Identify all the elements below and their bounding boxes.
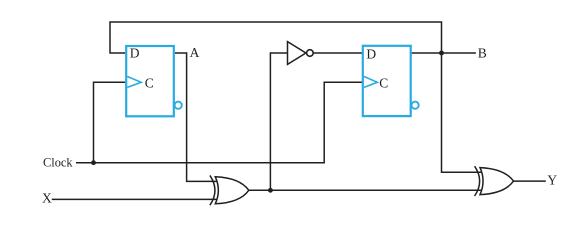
junction on Clock line bbox=[91, 160, 96, 165]
XOR gate 1 body bbox=[215, 177, 249, 204]
svg-text:Clock: Clock bbox=[43, 156, 73, 170]
wire: XOR2 output to Y bbox=[513, 180, 546, 182]
D flip-flop FF1 body bbox=[126, 46, 174, 116]
inverter bubble bbox=[307, 50, 314, 57]
FF2 Q-bar bubble bbox=[412, 102, 419, 109]
svg-text:D: D bbox=[130, 46, 140, 61]
XOR gate 2 input arc bbox=[475, 166, 480, 196]
FF1 Q-bar bubble bbox=[175, 102, 182, 109]
wire: node A from FF1 Q output to XOR1 upper input bbox=[175, 53, 217, 181]
wire: branch from XOR1 output up to inverter input bbox=[270, 53, 287, 190]
wire: X input line to XOR1 lower input bbox=[52, 198, 217, 200]
wire: feedback loop from node B to FF1 D input (top wire) bbox=[110, 22, 481, 172]
wire: inverter output to FF2 D input bbox=[314, 52, 362, 54]
wire: Clock input line bbox=[76, 82, 362, 162]
wire: FF2 Q output to node B bbox=[412, 52, 476, 54]
FF1 clock triangle bbox=[127, 77, 141, 88]
inverter triangle bbox=[288, 42, 306, 65]
junction at node B bbox=[439, 51, 444, 56]
FF2 clock triangle bbox=[364, 77, 377, 88]
svg-text:A: A bbox=[190, 45, 200, 60]
wire: XOR1 output to XOR2 lower input bbox=[249, 189, 482, 191]
svg-text:C: C bbox=[379, 75, 388, 90]
svg-text:B: B bbox=[478, 46, 487, 61]
svg-text:Y: Y bbox=[547, 173, 557, 188]
XOR gate 1 input arc bbox=[210, 175, 215, 205]
XOR gate 2 body bbox=[480, 168, 514, 195]
junction at XOR1 output bbox=[268, 188, 273, 193]
wire: clock branch to FF1 C input bbox=[94, 82, 126, 162]
svg-text:D: D bbox=[366, 46, 376, 61]
svg-text:C: C bbox=[145, 75, 154, 90]
svg-text:X: X bbox=[42, 190, 52, 205]
D flip-flop FF2 body bbox=[363, 46, 411, 116]
